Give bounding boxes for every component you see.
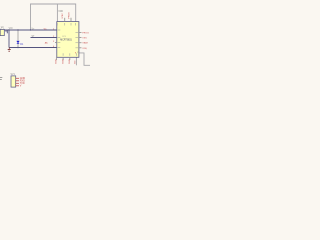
svg-text:GN: GN: [74, 60, 76, 64]
svg-text:STAT: STAT: [61, 13, 64, 19]
svg-text:SV1: SV1: [11, 74, 16, 76]
svg-text:MCP73831: MCP73831: [60, 40, 72, 42]
svg-text:JP1: JP1: [0, 28, 5, 30]
svg-text:VBAT: VBAT: [82, 42, 88, 45]
svg-text:PROG: PROG: [69, 12, 71, 19]
svg-text:GND: GND: [56, 59, 58, 64]
svg-text:GND: GND: [69, 59, 71, 64]
svg-text:GND: GND: [62, 59, 64, 64]
svg-text:PROG: PROG: [82, 33, 89, 35]
svg-text:VSS: VSS: [82, 38, 87, 40]
svg-text:VIN: VIN: [9, 28, 13, 30]
svg-text:VC: VC: [44, 28, 47, 30]
svg-text:VDD: VDD: [58, 11, 63, 13]
